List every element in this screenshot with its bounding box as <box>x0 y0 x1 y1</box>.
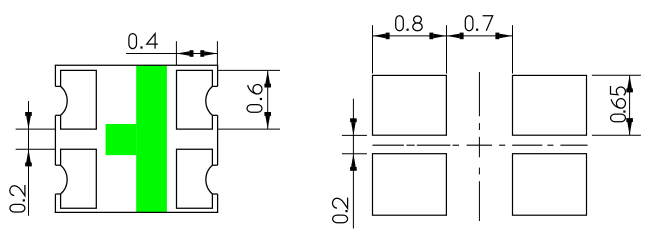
left edge segments (interrupted at castellations) <box>54 65 56 86</box>
solder pad bottom-right <box>513 154 587 216</box>
green body mark: vertical bar <box>136 65 167 212</box>
value label 0.6 (rotated) <box>247 84 262 112</box>
dimension 0.2 (left of pad layout) <box>342 99 367 229</box>
green body mark: left tab (cathode mark) <box>106 124 137 155</box>
dimension 0.4 (top) <box>126 41 217 65</box>
terminal pad top-right <box>177 70 218 129</box>
arrowheads of dimension 0.4 <box>176 50 217 57</box>
arrowheads of dimension 0.2 (left figure) <box>25 112 32 166</box>
value label 0.2 (pad layout, rotated) <box>333 198 348 223</box>
top edge <box>55 64 219 66</box>
terminal pad bottom-right <box>177 149 218 208</box>
bottom edge <box>55 211 219 213</box>
solder pad top-left <box>373 75 447 135</box>
terminal pad top-left <box>55 70 96 129</box>
package outline <box>55 65 219 212</box>
vertical centerline <box>478 72 480 221</box>
dimension 0.65 (right) <box>592 75 641 135</box>
dimension 0.6 (right of package) <box>218 70 280 129</box>
arrowheads of dimension 0.2 (pad layout) <box>350 118 357 171</box>
horizontal centerline <box>373 144 588 146</box>
value label 0.8 <box>396 16 422 31</box>
value label 0.2 (left figure, rotated) <box>10 185 25 212</box>
value label 0.4 <box>129 34 158 49</box>
solder pad top-right <box>513 75 587 135</box>
arrowheads of dimension 0.65 <box>626 75 633 135</box>
right edge segments <box>217 65 219 86</box>
terminal pad bottom-left <box>55 149 96 208</box>
arrowheads of dimensions 0.8 / 0.7 <box>373 33 513 40</box>
dimension 0.2 (left) <box>16 101 56 216</box>
solder pad bottom-left <box>373 154 447 216</box>
value label 0.7 <box>465 16 492 31</box>
dimensions 0.8 / 0.7 (top) <box>373 25 513 73</box>
value label 0.65 (rotated) <box>611 86 626 122</box>
arrowheads of dimension 0.6 <box>264 70 271 129</box>
